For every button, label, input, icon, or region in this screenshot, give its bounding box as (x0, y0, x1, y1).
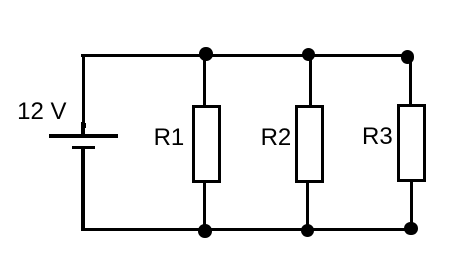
label: 12 V battery value (17, 100, 66, 124)
resistor R3 body (397, 104, 426, 182)
resistor R2 body (295, 105, 324, 183)
wire: bottom bus from left corner to right corner (81, 228, 413, 231)
wire: left vertical, top bus down towards battery (82, 54, 85, 129)
node: top junction B at R2 (302, 48, 316, 62)
label R3 (362, 125, 393, 149)
label R2 (261, 126, 292, 150)
battery V1 positive plate (long) (49, 134, 119, 138)
wire: short connector into battery positive plate (slightly offset) (81, 122, 84, 136)
wire: top bus from left corner to right corner (81, 54, 412, 57)
node: top junction C at R3 (401, 50, 415, 64)
node: bottom junction at R1 (198, 224, 212, 238)
wire: left vertical, battery negative plate down to bottom bus (81, 148, 84, 231)
wire: top bus to R2 top (309, 55, 312, 106)
node: top junction A at R1 (199, 47, 213, 61)
node: bottom junction at R3 (404, 222, 418, 236)
wire: R2 bottom to bottom bus (306, 182, 309, 229)
wire: R3 bottom to bottom bus (410, 181, 413, 230)
node: bottom junction at R2 (301, 224, 315, 238)
wire: R1 bottom to bottom bus (203, 182, 206, 229)
label R1 (154, 126, 185, 150)
battery V1 negative plate (short) (72, 146, 95, 149)
wire: small jog nub where the two left-wire segments meet (85, 123, 87, 129)
wire: top bus corner down to R3 top (409, 55, 412, 105)
resistor R1 body (192, 105, 221, 183)
wire: top bus to R1 top (203, 55, 206, 106)
